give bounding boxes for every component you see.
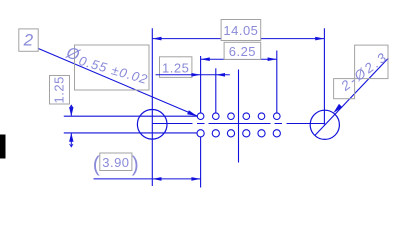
wire: pin col1 extension verticals x=200.6 bbox=[200, 56, 202, 188]
wire: pin row 1 horizontal line y=116.2 bbox=[64, 115, 198, 117]
svg-text:3.90: 3.90 bbox=[102, 155, 129, 170]
label 1.25 (horizontal, between columns) bbox=[160, 57, 192, 78]
svg-text:2: 2 bbox=[23, 31, 34, 50]
svg-text:): ) bbox=[132, 153, 139, 176]
label 2-dia2.3 bbox=[334, 45, 391, 99]
dimension 6.25 line y=59.2 with inside arrows bbox=[201, 58, 277, 60]
wire: right extension vertical V6 x=324.4 bbox=[323, 28, 325, 124]
dimension vertical line x=71.7 with outside arrows bbox=[70, 105, 72, 146]
dimension (3.90) line y=178.9 with inside arrows bbox=[94, 178, 201, 180]
wire: pin row 2 horizontal line y=132.9 bbox=[64, 132, 198, 134]
pad row2 pin circles y=133.2 bbox=[197, 130, 280, 137]
black bar at left edge bbox=[0, 135, 6, 159]
leader for right hole callout 2-dia2.3 bbox=[315, 58, 389, 136]
label (3.90) bbox=[93, 153, 139, 176]
dimension 1.25 line y=74.8 with outside arrows bbox=[156, 74, 230, 76]
leader for hole callout: line from label 2 to pin 1 bbox=[35, 47, 198, 116]
svg-text:6.25: 6.25 bbox=[229, 44, 256, 59]
mounting hole left big circle bbox=[137, 110, 167, 140]
label 2 (quantity balloon) bbox=[19, 29, 38, 51]
mounting hole right big circle bbox=[310, 110, 339, 139]
label dia 0.55 +/-0.02 bbox=[63, 44, 150, 90]
svg-text:1.25: 1.25 bbox=[162, 61, 189, 76]
wire: left extension vertical V1 x=152.3 bbox=[151, 28, 153, 186]
wire: pin col2 extension vertical x=215.8 bbox=[215, 68, 217, 113]
node: horizontal centerline (dash-dot) y=123.5 bbox=[152, 123, 324, 125]
label 6.25 bbox=[224, 42, 261, 59]
dimension 14.05 line y=38.6 with inside arrows bbox=[152, 38, 324, 40]
dimension 1.25 vertical (left, rows) label box rotated bbox=[50, 76, 70, 105]
svg-text:14.05: 14.05 bbox=[223, 23, 258, 38]
svg-text:(: ( bbox=[93, 153, 100, 176]
leader arrowhead at pin 1 bbox=[187, 110, 197, 116]
wire: center vertical line x=238.5 bbox=[238, 70, 240, 163]
pad row1 pin circles y=116.2 bbox=[197, 113, 280, 120]
svg-text:1.25: 1.25 bbox=[52, 76, 67, 103]
label 14.05 bbox=[221, 20, 261, 41]
wire: pin col6 extension vertical x=276.8 bbox=[276, 51, 278, 113]
leader arrowhead at right circle edge bbox=[333, 104, 342, 113]
